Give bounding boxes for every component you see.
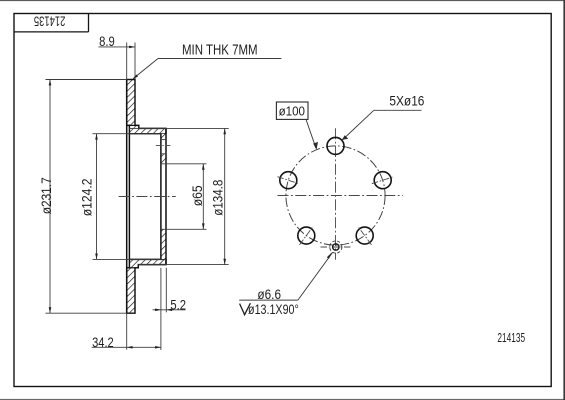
svg-text:5Xø16: 5Xø16 (389, 92, 424, 108)
svg-text:ø100: ø100 (279, 104, 306, 119)
svg-text:ø134.8: ø134.8 (210, 180, 226, 216)
svg-text:ø13.1X90°: ø13.1X90° (248, 302, 299, 317)
svg-text:214135: 214135 (34, 13, 66, 28)
svg-text:8.9: 8.9 (99, 34, 115, 49)
svg-text:34.2: 34.2 (92, 335, 114, 350)
svg-text:ø6.6: ø6.6 (257, 287, 281, 302)
svg-text:ø231.7: ø231.7 (38, 177, 54, 214)
svg-text:MIN THK 7MM: MIN THK 7MM (182, 41, 258, 58)
svg-text:5.2: 5.2 (170, 298, 186, 313)
svg-text:ø124.2: ø124.2 (79, 179, 95, 217)
svg-text:ø65: ø65 (189, 185, 205, 206)
svg-text:214135: 214135 (497, 331, 525, 345)
